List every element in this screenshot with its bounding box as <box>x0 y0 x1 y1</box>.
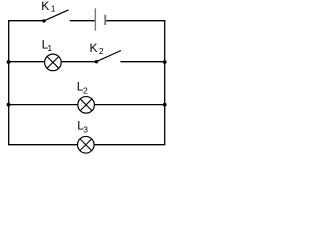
svg-text:2: 2 <box>99 46 104 56</box>
switch K2 blade (open) <box>97 51 122 62</box>
lamp L1 circle with cross <box>45 54 62 71</box>
wire: top rail left segment to switch K1 pivot <box>8 20 44 22</box>
svg-text:1: 1 <box>47 43 52 53</box>
wire: second rail segment from K2 fixed contact to right rail <box>120 61 165 63</box>
switch K1 blade (open) <box>44 10 69 21</box>
junction dot right rail / third rail <box>163 103 167 107</box>
svg-text:2: 2 <box>83 86 88 96</box>
svg-text:K: K <box>41 0 49 13</box>
switch K1 pivot dot <box>42 19 45 22</box>
wire: second rail left segment to lamp L1 <box>8 61 44 63</box>
junction dot right rail / second rail <box>163 60 167 64</box>
wire: third rail left segment to lamp L2 <box>8 104 77 106</box>
junction dot left rail / third rail <box>7 103 11 107</box>
wire: bottom rail segment from lamp L3 to right rail <box>95 144 166 146</box>
svg-text:K: K <box>90 41 98 55</box>
lamp L3 circle with cross <box>78 136 95 153</box>
wire: third rail segment from lamp L2 to right rail <box>95 104 166 106</box>
lamp L2 circle with cross <box>78 97 95 114</box>
battery cell: long positive plate <box>94 8 96 30</box>
junction dot left rail / second rail <box>7 60 11 64</box>
wire: top rail segment from K1 fixed contact to battery <box>70 20 95 22</box>
switch K2 pivot dot <box>95 60 98 63</box>
wire: bottom rail left segment to lamp L3 <box>8 144 77 146</box>
wire: second rail segment from lamp L1 to switch K2 pivot <box>62 61 97 63</box>
svg-text:3: 3 <box>83 125 88 135</box>
battery cell: short negative plate <box>104 15 106 25</box>
wire: left vertical rail <box>8 21 10 145</box>
svg-text:1: 1 <box>51 4 56 14</box>
wire: top rail segment from battery to right rail <box>106 20 165 22</box>
wire: right vertical rail <box>164 21 166 145</box>
